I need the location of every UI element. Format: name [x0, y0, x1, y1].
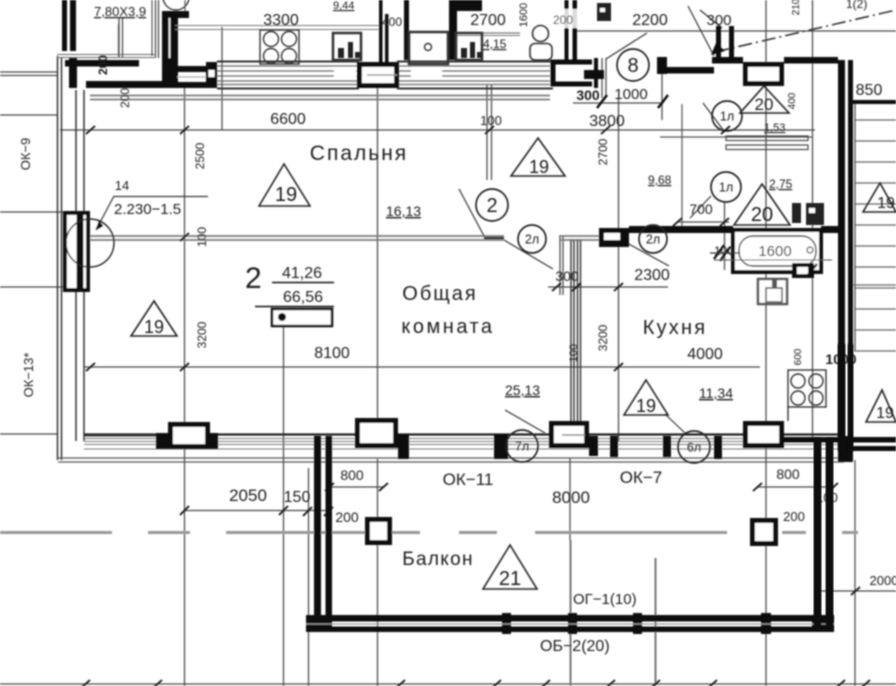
svg-text:2л: 2л	[525, 233, 539, 247]
svg-text:1(2): 1(2)	[846, 0, 867, 11]
svg-text:Спальня: Спальня	[310, 142, 408, 165]
svg-text:ОГ−1(10): ОГ−1(10)	[573, 591, 637, 608]
svg-text:1л: 1л	[719, 181, 733, 195]
svg-text:16,13: 16,13	[386, 203, 421, 219]
svg-text:800: 800	[340, 467, 364, 483]
svg-text:200: 200	[783, 509, 805, 524]
svg-text:3300: 3300	[263, 12, 299, 29]
svg-text:1л: 1л	[720, 110, 734, 124]
svg-text:25,13: 25,13	[505, 382, 540, 398]
svg-text:8100: 8100	[314, 345, 350, 362]
svg-text:комната: комната	[401, 316, 494, 338]
svg-text:2.230−1.5: 2.230−1.5	[114, 201, 181, 218]
svg-text:2: 2	[245, 262, 262, 295]
svg-text:1600: 1600	[758, 243, 791, 260]
svg-text:400: 400	[382, 15, 402, 29]
svg-text:14: 14	[115, 178, 129, 193]
svg-text:2000: 2000	[870, 573, 896, 588]
svg-text:ОК−9: ОК−9	[18, 138, 33, 171]
svg-text:2200: 2200	[632, 12, 668, 29]
svg-text:ОК−11: ОК−11	[443, 470, 494, 489]
svg-text:20: 20	[751, 204, 773, 226]
svg-text:400: 400	[787, 92, 798, 109]
svg-text:300: 300	[576, 87, 600, 103]
svg-text:2700: 2700	[596, 138, 610, 165]
svg-text:66,56: 66,56	[283, 289, 323, 306]
svg-text:19: 19	[877, 195, 895, 212]
svg-text:200: 200	[335, 509, 359, 525]
svg-text:3200: 3200	[596, 324, 610, 351]
svg-text:3200: 3200	[195, 321, 209, 348]
svg-text:20: 20	[755, 95, 774, 114]
svg-text:6л: 6л	[687, 441, 701, 455]
svg-text:ОБ−2(20): ОБ−2(20)	[540, 638, 610, 655]
svg-text:300: 300	[706, 12, 731, 29]
svg-text:19: 19	[144, 317, 164, 337]
svg-text:11,34: 11,34	[699, 385, 733, 401]
svg-text:200: 200	[118, 88, 132, 108]
svg-text:800: 800	[776, 466, 800, 482]
svg-text:Балкон: Балкон	[402, 549, 474, 570]
svg-text:Общая: Общая	[402, 283, 477, 305]
svg-text:3800: 3800	[589, 113, 625, 130]
svg-text:Кухня: Кухня	[643, 317, 708, 339]
svg-text:4,15: 4,15	[483, 37, 507, 51]
svg-text:19: 19	[529, 157, 549, 177]
svg-text:600: 600	[793, 348, 804, 365]
svg-text:7л: 7л	[515, 440, 529, 454]
svg-text:2300: 2300	[634, 267, 670, 284]
svg-text:100: 100	[195, 227, 209, 247]
svg-text:19: 19	[876, 405, 894, 422]
svg-text:2500: 2500	[193, 142, 207, 169]
svg-text:100: 100	[480, 113, 502, 128]
svg-text:6600: 6600	[270, 111, 306, 128]
svg-text:1600: 1600	[518, 3, 530, 27]
svg-text:1000: 1000	[614, 86, 647, 103]
svg-text:2700: 2700	[470, 12, 506, 29]
svg-text:2050: 2050	[229, 486, 267, 505]
svg-text:ОК−7: ОК−7	[620, 468, 663, 487]
svg-text:7,80X3,9: 7,80X3,9	[94, 4, 146, 19]
svg-text:ОК−13*: ОК−13*	[21, 353, 36, 398]
svg-text:21: 21	[499, 568, 521, 590]
svg-text:100: 100	[568, 344, 580, 362]
svg-text:19: 19	[636, 396, 656, 416]
svg-text:700: 700	[689, 201, 713, 217]
svg-text:1,53: 1,53	[764, 122, 785, 134]
svg-text:4000: 4000	[687, 346, 723, 363]
svg-text:41,26: 41,26	[282, 265, 322, 282]
svg-text:8000: 8000	[552, 488, 590, 507]
svg-text:8: 8	[627, 55, 638, 77]
svg-text:150: 150	[284, 489, 311, 506]
svg-text:200: 200	[96, 55, 110, 75]
svg-text:2: 2	[486, 195, 497, 217]
svg-text:210: 210	[791, 0, 802, 15]
svg-text:2,75: 2,75	[769, 177, 793, 191]
svg-text:9,44: 9,44	[333, 0, 354, 12]
svg-text:200: 200	[553, 13, 573, 27]
svg-text:300: 300	[555, 268, 579, 284]
svg-text:19: 19	[275, 184, 297, 206]
svg-text:850: 850	[856, 82, 883, 99]
svg-text:2л: 2л	[646, 233, 660, 247]
svg-text:9,68: 9,68	[648, 173, 672, 187]
